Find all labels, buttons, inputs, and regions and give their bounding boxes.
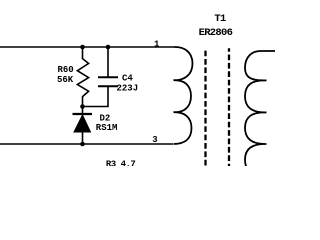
- svg-text:T1: T1: [214, 13, 226, 25]
- svg-text:RS1M: RS1M: [96, 123, 118, 133]
- svg-text:R60: R60: [58, 65, 74, 75]
- svg-text:C4: C4: [122, 73, 133, 83]
- svg-text:56K: 56K: [57, 75, 74, 85]
- svg-text:D2: D2: [100, 114, 111, 124]
- svg-text:ER2806: ER2806: [199, 27, 233, 39]
- svg-text:R3 4.7: R3 4.7: [106, 159, 136, 166]
- svg-text:3: 3: [152, 135, 157, 145]
- svg-text:1: 1: [154, 39, 160, 49]
- svg-text:223J: 223J: [117, 83, 139, 93]
